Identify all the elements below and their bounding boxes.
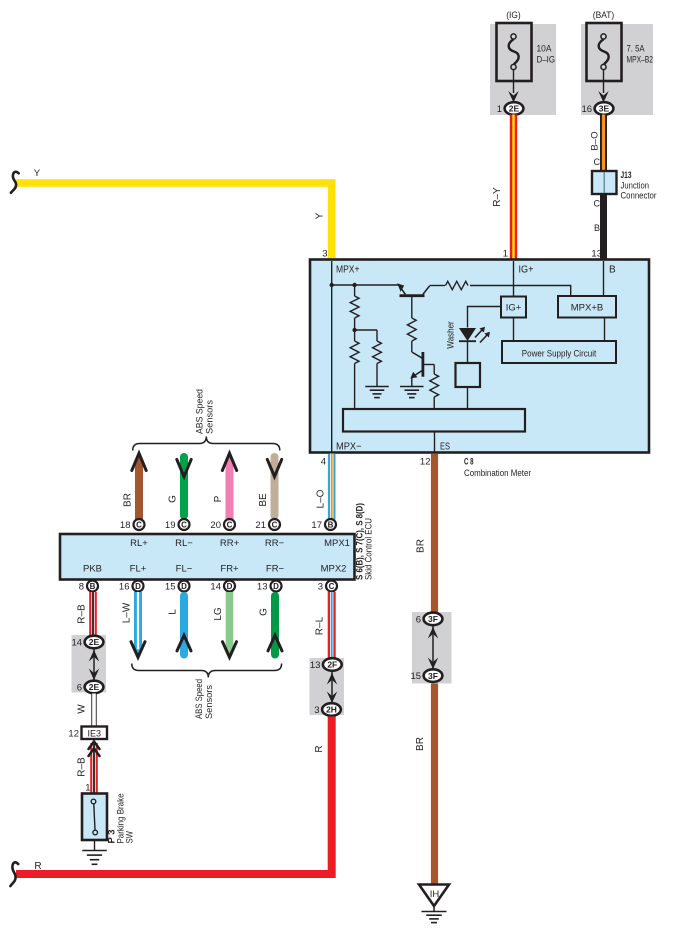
svg-text:15: 15 <box>165 582 176 593</box>
svg-text:8: 8 <box>79 582 84 593</box>
svg-text:MPX1: MPX1 <box>324 538 350 549</box>
svg-text:2E: 2E <box>509 104 520 114</box>
svg-text:Power Supply Circuit: Power Supply Circuit <box>522 349 597 360</box>
svg-text:3: 3 <box>314 705 319 716</box>
svg-text:(BAT): (BAT) <box>593 10 615 21</box>
svg-text:D: D <box>227 582 233 591</box>
svg-text:R–B: R–B <box>77 757 88 777</box>
svg-text:IG+: IG+ <box>506 303 522 314</box>
svg-text:C: C <box>181 521 187 530</box>
svg-text:Y: Y <box>34 168 41 179</box>
svg-text:6: 6 <box>416 614 421 625</box>
svg-text:R–Y: R–Y <box>492 187 503 207</box>
svg-text:L–W: L–W <box>122 602 133 623</box>
svg-text:Sensors: Sensors <box>204 685 215 719</box>
svg-text:P: P <box>213 495 224 502</box>
svg-text:ES: ES <box>440 442 450 453</box>
svg-text:Connector: Connector <box>621 191 658 202</box>
svg-text:PKB: PKB <box>83 564 102 575</box>
svg-text:Skid Control ECU: Skid Control ECU <box>364 518 375 580</box>
svg-text:FL+: FL+ <box>130 564 147 575</box>
svg-text:R–L: R–L <box>315 616 326 635</box>
svg-text:C: C <box>136 521 142 530</box>
svg-text:19: 19 <box>165 520 176 531</box>
svg-text:3: 3 <box>322 249 327 260</box>
svg-text:MPX–B2: MPX–B2 <box>627 55 654 66</box>
svg-text:C: C <box>272 521 278 530</box>
svg-text:2E: 2E <box>89 637 100 647</box>
svg-text:IE3: IE3 <box>87 729 101 739</box>
svg-text:FL−: FL− <box>176 564 193 575</box>
svg-text:B: B <box>90 582 96 591</box>
svg-text:L–O: L–O <box>316 489 327 508</box>
svg-text:D: D <box>181 582 187 591</box>
svg-text:18: 18 <box>120 520 131 531</box>
svg-text:D–IG: D–IG <box>537 55 556 66</box>
svg-text:12: 12 <box>420 457 431 468</box>
svg-text:RL−: RL− <box>175 538 193 549</box>
svg-text:RR+: RR+ <box>220 538 240 549</box>
svg-text:W: W <box>77 704 88 714</box>
svg-text:13: 13 <box>591 249 602 260</box>
svg-text:G: G <box>259 608 270 616</box>
svg-text:LG: LG <box>213 607 224 621</box>
svg-text:MPX−: MPX− <box>336 442 362 453</box>
svg-text:C: C <box>227 521 233 530</box>
svg-text:13: 13 <box>310 660 321 671</box>
svg-text:BR: BR <box>123 493 134 507</box>
svg-text:21: 21 <box>255 520 266 531</box>
svg-text:IH: IH <box>430 889 440 900</box>
svg-text:14: 14 <box>72 637 83 648</box>
svg-text:2H: 2H <box>326 705 337 715</box>
svg-text:7. 5A: 7. 5A <box>627 44 645 55</box>
svg-text:B: B <box>328 521 334 530</box>
svg-text:RL+: RL+ <box>130 538 148 549</box>
svg-text:2F: 2F <box>327 660 337 670</box>
svg-text:SW: SW <box>125 830 136 843</box>
svg-text:Combination Meter: Combination Meter <box>464 468 532 479</box>
svg-text:R–B: R–B <box>77 604 88 624</box>
svg-text:FR−: FR− <box>266 564 285 575</box>
svg-text:MPX+B: MPX+B <box>571 303 603 314</box>
svg-text:16: 16 <box>582 104 593 115</box>
svg-text:MPX2: MPX2 <box>321 564 347 575</box>
svg-text:BR: BR <box>416 539 427 553</box>
svg-text:C: C <box>329 582 335 591</box>
svg-text:2E: 2E <box>89 682 100 692</box>
svg-text:12: 12 <box>68 729 79 740</box>
svg-text:G: G <box>168 495 179 503</box>
svg-text:1: 1 <box>497 104 502 115</box>
svg-text:3: 3 <box>318 582 323 593</box>
svg-text:16: 16 <box>119 582 130 593</box>
svg-text:Washer: Washer <box>446 321 457 349</box>
svg-text:D: D <box>135 582 141 591</box>
svg-text:4: 4 <box>321 457 326 468</box>
svg-text:Sensors: Sensors <box>205 400 216 434</box>
svg-text:13: 13 <box>257 582 268 593</box>
svg-text:6: 6 <box>77 682 82 693</box>
svg-text:J13: J13 <box>621 170 632 181</box>
svg-text:1: 1 <box>503 249 508 260</box>
svg-text:B: B <box>609 265 616 276</box>
svg-text:BE: BE <box>258 493 269 507</box>
svg-text:3E: 3E <box>599 104 610 114</box>
svg-text:R: R <box>34 861 41 872</box>
svg-text:1: 1 <box>85 783 90 794</box>
svg-text:C 8: C 8 <box>464 457 474 468</box>
svg-text:D: D <box>273 582 279 591</box>
svg-text:B: B <box>594 223 600 233</box>
svg-text:IG+: IG+ <box>519 265 534 276</box>
svg-text:R: R <box>314 745 325 752</box>
svg-text:17: 17 <box>311 520 322 531</box>
svg-text:14: 14 <box>210 582 221 593</box>
svg-text:C: C <box>594 157 601 167</box>
svg-text:15: 15 <box>411 671 422 682</box>
svg-text:10A: 10A <box>537 44 553 55</box>
svg-text:MPX+: MPX+ <box>336 265 360 276</box>
svg-text:FR+: FR+ <box>220 564 239 575</box>
svg-text:3F: 3F <box>428 671 438 681</box>
svg-text:BR: BR <box>415 737 426 751</box>
svg-text:20: 20 <box>210 520 221 531</box>
svg-text:L: L <box>168 609 179 615</box>
svg-text:RR−: RR− <box>265 538 285 549</box>
svg-text:B–O: B–O <box>590 131 601 150</box>
svg-text:C: C <box>594 199 601 209</box>
svg-text:Y: Y <box>315 212 326 219</box>
svg-text:(IG): (IG) <box>506 10 521 21</box>
svg-text:3F: 3F <box>428 614 438 624</box>
